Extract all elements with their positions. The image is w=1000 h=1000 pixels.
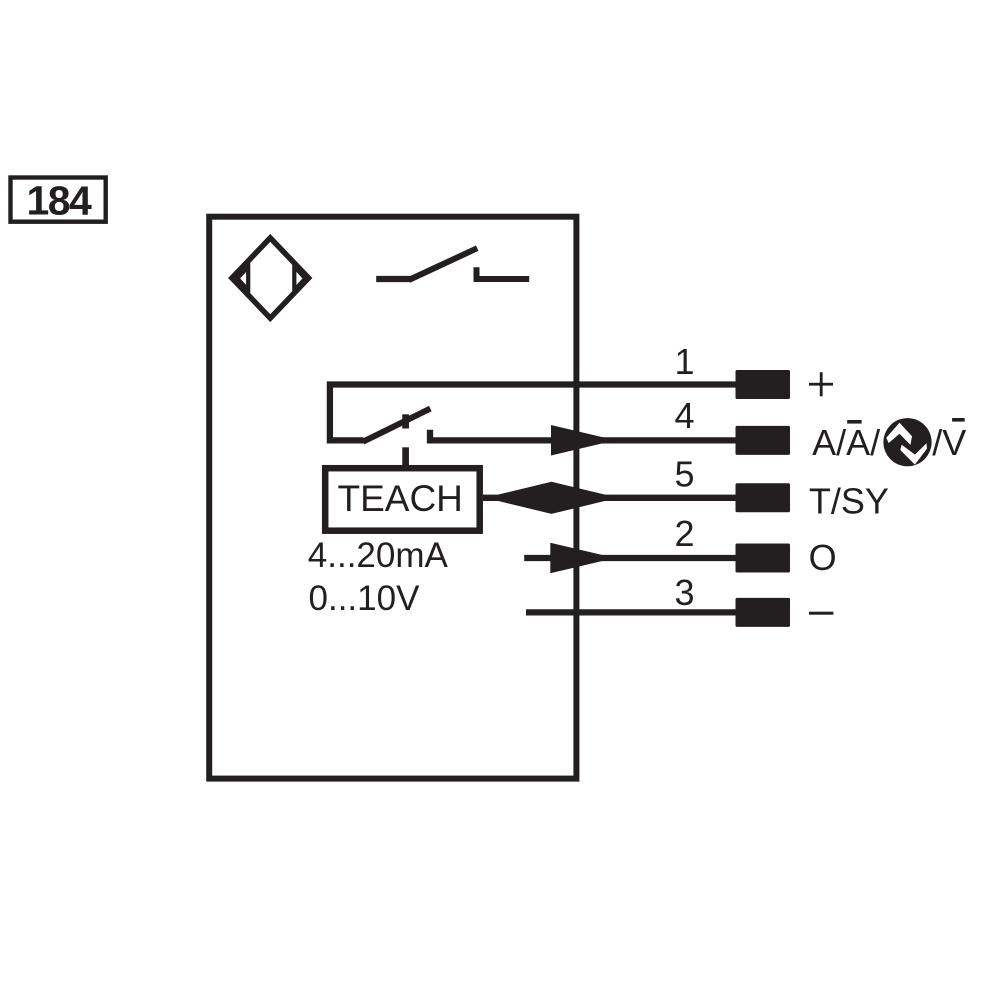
wire row2 xyxy=(524,555,735,561)
relay contact switch top: lever xyxy=(409,248,477,280)
sensor body rectangle xyxy=(209,217,576,779)
terminal block pin5 xyxy=(736,483,791,512)
terminal block pin4 xyxy=(736,426,791,455)
macron over V xyxy=(952,418,965,422)
teach actuator dash crossing lever xyxy=(402,414,409,428)
arrow row2 xyxy=(550,543,615,573)
svg-text:O: O xyxy=(809,537,837,578)
macron over second A xyxy=(847,420,861,424)
svg-text:T/SY: T/SY xyxy=(809,481,889,522)
svg-text:A/A/: A/A/ xyxy=(812,422,880,463)
svg-text:4...20mA: 4...20mA xyxy=(308,536,449,575)
relay contact switch top: left lead xyxy=(376,276,411,282)
terminal block pin1 xyxy=(736,370,791,399)
sensor symbol left triangle xyxy=(237,267,248,291)
wire row5 xyxy=(483,495,736,501)
arrow row4 xyxy=(551,425,616,456)
teach contact lever xyxy=(363,409,430,442)
sensor symbol right triangle xyxy=(294,267,305,291)
wire row1 + loop to teach contact xyxy=(330,385,736,441)
sensor symbol diamond xyxy=(232,238,309,318)
terminal block pin3 xyxy=(736,598,791,627)
svg-text:2: 2 xyxy=(674,513,694,554)
teach contact right L + wire row4 xyxy=(430,430,736,441)
svg-text:184: 184 xyxy=(26,178,92,224)
page label box 184 xyxy=(11,178,106,222)
svg-text:1: 1 xyxy=(674,341,694,382)
svg-text:TEACH: TEACH xyxy=(338,478,463,519)
svg-text:4: 4 xyxy=(674,395,694,436)
minus label row3 xyxy=(809,612,833,615)
svg-text:5: 5 xyxy=(674,453,694,494)
wire row3 xyxy=(526,609,736,615)
TEACH box xyxy=(325,468,480,531)
plus label row1 xyxy=(809,383,833,386)
terminal block pin2 xyxy=(736,544,791,573)
svg-text:/V: /V xyxy=(932,422,966,463)
wenglor logo circle xyxy=(883,418,931,466)
logo up chevron xyxy=(886,423,912,445)
teach actuator dash to box xyxy=(402,447,409,466)
bidirectional diamond arrow row5 xyxy=(485,482,618,514)
logo down chevron xyxy=(900,443,927,464)
relay contact switch top: right contact L xyxy=(477,267,530,279)
svg-text:0...10V: 0...10V xyxy=(309,579,421,618)
svg-text:3: 3 xyxy=(674,572,694,613)
